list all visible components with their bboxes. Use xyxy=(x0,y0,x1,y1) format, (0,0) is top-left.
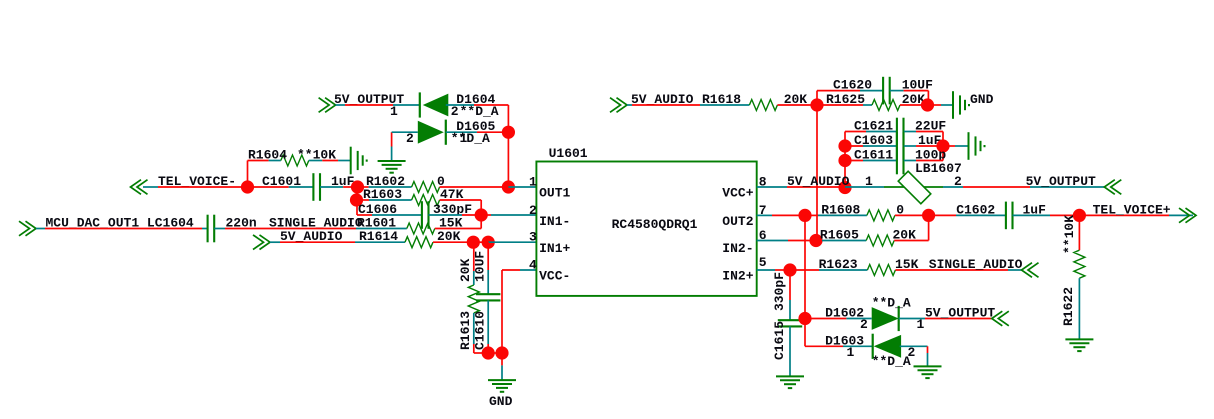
resistor R1625 xyxy=(872,100,900,111)
wire gnd stem a xyxy=(501,353,503,365)
wire D1603 in a xyxy=(805,345,843,347)
wire R1614 row c xyxy=(355,241,405,243)
port 5V_OUTPUT (top left) xyxy=(319,98,336,113)
wire C1620 up left xyxy=(816,91,818,105)
svg-text:R1618: R1618 xyxy=(702,92,741,107)
arrow 5V_OUTPUT right xyxy=(1104,180,1121,195)
wire R1614 row b xyxy=(280,241,355,243)
capacitor C1610 xyxy=(476,294,500,300)
svg-text:OUT2: OUT2 xyxy=(722,214,753,229)
wire C1621 in a xyxy=(845,131,866,133)
node cap bank right xyxy=(936,139,949,152)
wire C1602 out b xyxy=(1050,214,1079,216)
wire 5V_OUTPUT row b xyxy=(963,186,1030,188)
svg-text:C1603: C1603 xyxy=(854,133,893,148)
wire cap bank right vertical xyxy=(942,132,944,161)
wire D1603 in drop xyxy=(804,319,806,347)
inductor LB1607 xyxy=(898,171,931,204)
wire OUT1 stub xyxy=(508,186,536,188)
svg-text:IN2-: IN2- xyxy=(722,241,753,256)
wire R1625 in xyxy=(817,104,863,106)
wire D1603 in b xyxy=(843,345,873,347)
svg-text:TEL_VOICE+: TEL_VOICE+ xyxy=(1093,202,1171,217)
arrow TEL_VOICE- xyxy=(131,180,148,195)
svg-text:R1625: R1625 xyxy=(826,92,865,107)
wire vertical 5Vaudio feed xyxy=(816,105,818,241)
wire R1614 row a xyxy=(270,241,280,243)
wire R1604 out a xyxy=(309,160,323,162)
wire LB1607 lead left xyxy=(884,186,905,188)
svg-text:GND: GND xyxy=(970,92,994,107)
wire IN2- stub xyxy=(757,240,788,242)
wire 5V_OUTPUT row c xyxy=(1030,186,1104,188)
wire MCU row a xyxy=(36,228,45,230)
wire R1613 lead b xyxy=(473,271,475,285)
wire 5V_OUTPUT a xyxy=(336,104,345,106)
svg-text:5: 5 xyxy=(759,255,767,270)
wire IN2- row d xyxy=(822,240,866,242)
svg-text:**10K: **10K xyxy=(1062,215,1077,254)
node OUT2 xyxy=(798,209,811,222)
wire R1622 lead a xyxy=(1078,215,1080,250)
port 5V_AUDIO (left) xyxy=(253,235,270,250)
wire TEL_VOICE+ a xyxy=(1079,214,1169,216)
ground GND (bottom center) xyxy=(488,380,516,392)
wire R1614 out xyxy=(433,241,473,243)
svg-text:2: 2 xyxy=(406,131,414,146)
arrow 5V_OUTPUT diode xyxy=(992,311,1009,326)
wire OUT2 row b xyxy=(772,214,805,216)
port 5V_OUTPUT (right) xyxy=(1104,180,1121,195)
wire VCC+ stub xyxy=(757,186,787,188)
wire IN1- stub b xyxy=(491,214,536,216)
svg-text:3: 3 xyxy=(529,230,537,245)
wire R1602 in a xyxy=(358,186,369,188)
wire C1601 out b xyxy=(343,186,357,188)
wire C1611 in a xyxy=(845,160,863,162)
wire R1602 out xyxy=(440,186,509,188)
node R1608/R1605 xyxy=(922,209,935,222)
arrow 5V_AUDIO top xyxy=(610,98,627,113)
wire R1604 out b xyxy=(322,160,338,162)
wire R1623 out a xyxy=(895,269,1008,271)
wire C1620 top c xyxy=(890,90,904,92)
svg-text:20K: 20K xyxy=(458,258,473,282)
wire D1605 anode drop b xyxy=(391,147,393,162)
node R1613 top xyxy=(467,236,480,249)
wire R1618 out xyxy=(777,104,817,106)
wire D1605 out a xyxy=(446,131,477,133)
svg-text:U1601: U1601 xyxy=(549,146,588,161)
wire 5V_OUTPUT c xyxy=(393,104,420,106)
svg-text:C1601: C1601 xyxy=(262,174,301,189)
wire OUT2 row c xyxy=(805,214,818,216)
wire C1611 in b xyxy=(863,160,897,162)
wire IN2- row b xyxy=(788,240,816,242)
wire C1602 in a xyxy=(929,214,956,216)
ground sideways R1604 xyxy=(351,147,367,175)
wire C1601 out a xyxy=(320,186,343,188)
wire D1603 gnd b xyxy=(927,353,929,366)
svg-text:C1602: C1602 xyxy=(956,202,995,217)
svg-text:R1605: R1605 xyxy=(820,228,859,243)
wire C1610 lead c xyxy=(487,300,489,344)
wire C1603 in b xyxy=(863,145,897,147)
svg-text:1: 1 xyxy=(390,104,398,119)
wire R1604 lead b xyxy=(269,160,281,162)
svg-text:C1615: C1615 xyxy=(772,321,787,360)
svg-text:4: 4 xyxy=(529,258,537,273)
op-amp U1601 body xyxy=(536,162,756,296)
svg-text:R1623: R1623 xyxy=(819,257,858,272)
wire to GND a xyxy=(928,104,942,106)
svg-text:VCC-: VCC- xyxy=(539,269,570,284)
node VCC+ / cap bank xyxy=(838,181,851,194)
svg-text:D1603: D1603 xyxy=(825,333,864,348)
resistor R1613 xyxy=(468,285,479,313)
wire C1615 lead c xyxy=(789,326,791,376)
node D1605/D1604 junction xyxy=(502,126,515,139)
wire OUT2 stub xyxy=(757,214,772,216)
wire MCU row d xyxy=(214,228,225,230)
diode D1605 xyxy=(418,120,446,145)
ground D1605 xyxy=(378,161,406,173)
node OUT1 xyxy=(502,180,515,193)
svg-text:5V_OUTPUT: 5V_OUTPUT xyxy=(925,306,995,321)
svg-text:5V_AUDIO: 5V_AUDIO xyxy=(787,174,850,189)
svg-text:1: 1 xyxy=(847,345,855,360)
wire IN2- row c xyxy=(816,240,822,242)
resistor R1603 xyxy=(412,195,440,206)
wire C1615 lead b xyxy=(789,300,791,320)
wire C1621 out a xyxy=(904,131,916,133)
wire LB1607 lead right xyxy=(924,186,943,188)
resistor R1622 xyxy=(1074,250,1085,278)
wire R1604 lead a xyxy=(248,160,269,162)
ground sideways GND right xyxy=(953,91,969,119)
svg-text:1: 1 xyxy=(865,174,873,189)
wire C1620 top b xyxy=(860,90,883,92)
svg-text:C1621: C1621 xyxy=(854,119,893,134)
wire R1604 drop xyxy=(247,161,249,188)
wire TEL_VOICE- b xyxy=(158,186,248,188)
resistor R1618 xyxy=(749,100,777,111)
wire R1613 lead d xyxy=(473,344,475,353)
wire MCU row e xyxy=(225,228,356,230)
node R1603 tap xyxy=(350,193,363,206)
wire C1611 out b xyxy=(916,160,943,162)
node IN1- xyxy=(475,208,488,221)
wire IN1+ stub xyxy=(488,241,536,243)
svg-text:IN2+: IN2+ xyxy=(722,269,753,284)
resistor R1605 xyxy=(866,235,894,246)
node C1601/R1602 xyxy=(351,180,364,193)
wire C1610 lead a xyxy=(487,242,489,270)
capacitor C1620 xyxy=(883,77,890,105)
wire vertical OUT2 feedback xyxy=(804,215,806,318)
wire D1603 out a xyxy=(900,345,928,347)
wire cap bank gnd b xyxy=(955,145,968,147)
wire IN2+ stub xyxy=(757,269,775,271)
svg-text:R1604: R1604 xyxy=(248,148,287,163)
capacitor C1615 xyxy=(778,320,802,326)
capacitor C1621 xyxy=(897,118,904,146)
arrow TEL_VOICE+ xyxy=(1179,208,1196,223)
wire R1625 out xyxy=(900,104,928,106)
ground D1603 xyxy=(914,366,942,378)
wire R1613 lead a xyxy=(473,242,475,271)
capacitor C1601 xyxy=(313,173,320,201)
wire MCU row b xyxy=(45,228,202,230)
diode D1604 xyxy=(420,92,449,117)
svg-text:R1613: R1613 xyxy=(458,311,473,350)
wire D1603 gnd a xyxy=(927,346,929,353)
wire gnd link xyxy=(488,352,502,354)
svg-text:2: 2 xyxy=(451,104,459,119)
wire D1605 out b xyxy=(477,131,509,133)
svg-text:RC4580QDRQ1: RC4580QDRQ1 xyxy=(612,217,698,232)
svg-text:SINGLE_AUDIO: SINGLE_AUDIO xyxy=(929,257,1023,272)
capacitor C1606 xyxy=(422,201,429,229)
svg-text:C1611: C1611 xyxy=(854,148,893,163)
svg-text:1: 1 xyxy=(917,317,925,332)
arrow SINGLE_AUDIO xyxy=(1022,263,1039,278)
wire 5V_OUTPUT b xyxy=(345,104,393,106)
ground C1615 xyxy=(776,376,804,388)
wire R1603 in a xyxy=(357,199,370,201)
wire R1608 out xyxy=(895,214,929,216)
node IN2+ xyxy=(783,263,796,276)
node VCC- gnd xyxy=(495,346,508,359)
arrow 5V_AUDIO left xyxy=(253,235,270,250)
wire R1601 out xyxy=(435,228,481,230)
resistor R1602 xyxy=(412,182,440,193)
wire node stack vertical xyxy=(356,187,358,215)
svg-text:D1602: D1602 xyxy=(825,306,864,321)
svg-text:C1610: C1610 xyxy=(473,311,488,350)
wire R1613 lead c xyxy=(473,313,475,344)
wire D1602 out a xyxy=(899,318,925,320)
svg-text:C1620: C1620 xyxy=(833,78,872,93)
wire vertical R1605 out xyxy=(928,215,930,240)
svg-text:330pF: 330pF xyxy=(772,272,787,311)
wire R1623 out b xyxy=(1008,269,1022,271)
resistor R1608 xyxy=(867,210,895,221)
capacitor C1602 xyxy=(1006,202,1013,230)
wire D1602 in a xyxy=(805,318,846,320)
wire to GND b xyxy=(941,104,953,106)
wire C1602 in b xyxy=(956,214,1006,216)
wire C1610 lead b xyxy=(487,270,489,294)
wire R1614 out b xyxy=(473,241,488,243)
wire D1604 out a xyxy=(446,104,474,106)
wire VCC- stub b xyxy=(520,269,536,271)
wire D1602 in b xyxy=(846,318,871,320)
wire C1611 out a xyxy=(904,160,916,162)
node C1603 left xyxy=(838,139,851,152)
wire IN2+ row c xyxy=(790,269,819,271)
wire R1622 lead b xyxy=(1078,278,1080,339)
resistor R1623 xyxy=(867,265,895,276)
svg-text:IN1+: IN1+ xyxy=(539,241,570,256)
wire C1610 lead d xyxy=(487,344,489,353)
wire D1605 anode drop a xyxy=(391,132,393,146)
wire R1602 in b xyxy=(369,186,412,188)
svg-text:R1603: R1603 xyxy=(363,187,402,202)
node R1625 out xyxy=(921,98,934,111)
node IN2- xyxy=(809,234,822,247)
wire C1620 top a xyxy=(817,90,860,92)
wire R1603 out xyxy=(440,199,482,201)
wire R1618 row a xyxy=(627,104,632,106)
svg-text:VCC+: VCC+ xyxy=(722,186,753,201)
capacitor C1611 xyxy=(897,147,904,175)
svg-text:GND: GND xyxy=(489,394,513,409)
wire MCU row c xyxy=(202,228,208,230)
node TEL_VOICE-/R1604 xyxy=(241,180,254,193)
wire IN2+ row b xyxy=(775,269,790,271)
wire VCC+ row c xyxy=(845,186,884,188)
port SINGLE_AUDIO (output) xyxy=(1022,263,1039,278)
svg-text:OUT1: OUT1 xyxy=(539,186,570,201)
svg-text:1: 1 xyxy=(460,131,468,146)
wire C1603 out b xyxy=(916,145,943,147)
node diode feed xyxy=(798,312,811,325)
svg-text:**D_A: **D_A xyxy=(872,295,911,310)
port MCU_DAC_OUT1 (input) xyxy=(19,221,36,236)
wire R1603 in b xyxy=(369,199,412,201)
wire VCC+ row b xyxy=(787,186,845,188)
svg-text:**D_A: **D_A xyxy=(872,354,911,369)
node C1611 left xyxy=(838,154,851,167)
svg-text:R1622: R1622 xyxy=(1061,287,1076,326)
wire R1618 row b xyxy=(632,104,700,106)
wire C1615 lead a xyxy=(789,270,791,300)
arrow 5V_OUTPUT xyxy=(319,98,336,113)
wire R1605 out xyxy=(894,240,928,242)
svg-text:**D_A: **D_A xyxy=(460,104,499,119)
node C1610 top xyxy=(482,236,495,249)
svg-text:**D_A: **D_A xyxy=(451,131,490,146)
diode D1603 xyxy=(873,334,901,359)
ground R1622 xyxy=(1065,339,1093,351)
wire D1604 out b xyxy=(474,104,508,106)
port 5V_AUDIO (top) xyxy=(610,98,627,113)
wire D1602 out b xyxy=(925,318,992,320)
svg-text:IN1-: IN1- xyxy=(539,214,570,229)
wire C1603 out a xyxy=(904,145,916,147)
svg-text:2: 2 xyxy=(860,317,868,332)
diode D1602 xyxy=(872,306,899,331)
wire TEL_VOICE- a xyxy=(143,186,158,188)
wire gnd stem b xyxy=(501,365,503,380)
wire VCC- stub a xyxy=(502,269,520,271)
port TEL_VOICE- (output) xyxy=(131,180,148,195)
wire TEL_VOICE- c xyxy=(248,186,289,188)
wire C1621 in b xyxy=(866,131,897,133)
capacitor C1603 xyxy=(897,132,904,160)
wire MCU row f xyxy=(356,228,407,230)
resistor R1604 xyxy=(281,155,309,166)
wire cap bank gnd a xyxy=(943,145,955,147)
wire C1602 out a xyxy=(1013,214,1051,216)
svg-text:10UF: 10UF xyxy=(473,251,488,282)
capacitor LC1604 xyxy=(208,215,215,243)
node TEL_VOICE+ xyxy=(1073,209,1086,222)
wire C1606 in b xyxy=(372,214,422,216)
ground sideways cap bank xyxy=(969,132,985,160)
wire vertical D1604-D1605-OUT1 xyxy=(507,105,509,187)
wire OUT2 row d xyxy=(818,214,867,216)
arrow MCU_DAC_OUT1 xyxy=(19,221,36,236)
wire IN2+ row d xyxy=(819,269,867,271)
wire C1620 up right xyxy=(927,91,929,105)
wire C1620 top d xyxy=(904,90,929,92)
wire TEL_VOICE+ b xyxy=(1169,214,1193,216)
wire C1621 out b xyxy=(916,131,943,133)
wire feedback vertical xyxy=(480,200,482,229)
port TEL_VOICE+ (output) xyxy=(1179,208,1196,223)
wire 5V_OUTPUT row a xyxy=(943,186,963,188)
wire cap bank left vertical xyxy=(844,132,846,188)
port 5V_OUTPUT (diode) xyxy=(992,311,1009,326)
wire D1605 in xyxy=(392,131,418,133)
svg-text:R1608: R1608 xyxy=(821,202,860,217)
wire R1625 in b xyxy=(863,104,872,106)
wire R1618 row c xyxy=(700,104,749,106)
resistor R1601 xyxy=(407,223,435,234)
wire C1606 out b xyxy=(462,214,481,216)
svg-text:5V_OUTPUT: 5V_OUTPUT xyxy=(1026,174,1096,189)
wire C1606 out a xyxy=(429,214,463,216)
wire TEL_VOICE- d xyxy=(289,186,314,188)
svg-text:R1614: R1614 xyxy=(359,229,398,244)
wire VCC- drop xyxy=(501,270,503,353)
wire C1606 in a xyxy=(357,214,372,216)
resistor R1614 xyxy=(405,237,433,248)
wire IN1- stub a xyxy=(481,214,491,216)
wire R1604 out c xyxy=(338,160,351,162)
wire R1613 bottom link xyxy=(474,352,488,354)
svg-text:1: 1 xyxy=(529,175,537,190)
wire C1603 in a xyxy=(845,145,863,147)
node C1610 bottom xyxy=(482,346,495,359)
node R1618/R1625 xyxy=(810,98,823,111)
svg-text:2: 2 xyxy=(529,203,537,218)
